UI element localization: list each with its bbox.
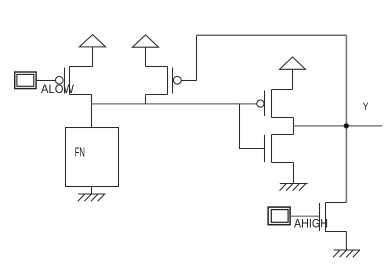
wire output Y horizontal (gray) — [294, 125, 383, 127]
wire top net horizontal — [197, 34, 347, 36]
pmos M1 gate bubble — [56, 76, 64, 84]
junction dot at Y — [344, 123, 349, 128]
wire M3 source to VDD — [292, 69, 294, 89]
ground below M5 — [333, 250, 360, 257]
input pad AHIGH — [268, 207, 290, 225]
power VDD symbol 3 — [280, 57, 306, 69]
svg-text:Y: Y — [363, 101, 369, 113]
wire M2 gate stub — [181, 80, 196, 82]
pmos M3 — [265, 90, 294, 118]
wire M2 drain down to net N1 — [145, 95, 147, 104]
wire FN box to ground — [91, 187, 93, 195]
wire VDD to M2 source — [145, 47, 147, 66]
pmos M3 gate bubble — [257, 100, 264, 107]
wire AHIGH pad to M5 gate (gray) — [291, 215, 320, 217]
nmos M4 — [265, 135, 294, 163]
ground below M4 — [280, 184, 308, 191]
svg-text:FN: FN — [75, 145, 85, 160]
wire ALOW pad to M1 gate — [36, 80, 55, 82]
wire M3 drain to M4 drain — [293, 118, 295, 135]
wire right net vertical (gray) — [345, 35, 347, 202]
box FN — [66, 128, 119, 187]
pmos M2 gate bubble — [173, 76, 181, 84]
wire M5 source to ground — [345, 232, 347, 251]
input pad ALOW — [15, 72, 36, 89]
wire net N1 horizontal (gray) — [92, 103, 257, 105]
wire M1 drain down to FN box — [91, 95, 93, 128]
ground below FN — [78, 194, 106, 201]
wire M5 drain up to Y — [345, 201, 347, 203]
wire net N1 branch to M4 gate — [240, 104, 265, 149]
wire top net vertical rise — [196, 35, 198, 80]
power VDD symbol 2 — [132, 35, 158, 47]
wire M1 source to VDD — [92, 47, 94, 67]
wire M4 source to ground — [293, 163, 295, 184]
pmos M2 — [146, 67, 173, 95]
nmos M5 — [320, 203, 347, 233]
pmos M1 — [65, 67, 93, 95]
power VDD symbol 1 — [79, 35, 105, 47]
svg-text:AHIGH: AHIGH — [294, 219, 328, 231]
